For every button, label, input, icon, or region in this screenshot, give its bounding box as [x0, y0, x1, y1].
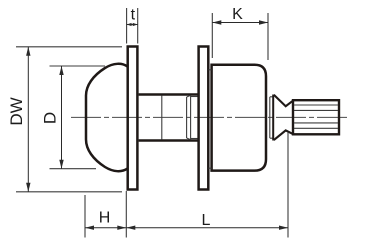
nut bearing-face step top	[208, 69, 211, 71]
dimension D: extension lines	[50, 66, 106, 169]
shank top edge	[139, 93, 199, 96]
dimension K: dimension line with arrows	[212, 22, 268, 24]
bolt end protruding behind nut	[270, 97, 273, 138]
nut	[212, 65, 266, 171]
dimension DW: dimension line with arrows	[27, 47, 29, 192]
shank bottom edge	[139, 139, 199, 142]
cone to breakneck (bottom)	[274, 130, 293, 140]
dimension H: dimension line with arrows	[85, 227, 126, 229]
thread runout band before washer W2	[187, 95, 198, 139]
nut bearing-face step bottom	[208, 167, 211, 169]
washer W1 (at head)	[128, 47, 138, 190]
dimension L: dimension line with arrows	[126, 227, 288, 229]
dimension t: extension lines	[127, 8, 138, 44]
spline ridges	[294, 105, 338, 128]
svg-text:K: K	[232, 6, 243, 23]
cone to breakneck (top)	[274, 95, 293, 106]
dimension t: arrows	[127, 24, 138, 26]
dimension H/L: extension lines	[85, 132, 288, 238]
svg-text:t: t	[131, 7, 136, 24]
dimension DW: extension lines	[16, 47, 122, 192]
bolt head (dome)	[86, 64, 128, 171]
spline tip body	[293, 100, 339, 134]
center line (bolt axis)	[71, 116, 350, 118]
svg-text:H: H	[99, 210, 111, 227]
dimension D: dimension line with arrows	[61, 66, 63, 169]
svg-text:L: L	[202, 212, 211, 229]
svg-text:DW: DW	[7, 97, 26, 125]
dimension K: extension lines	[212, 13, 268, 60]
washer W2 (at nut)	[199, 47, 209, 190]
svg-text:D: D	[40, 112, 59, 124]
thread start line	[161, 96, 163, 140]
